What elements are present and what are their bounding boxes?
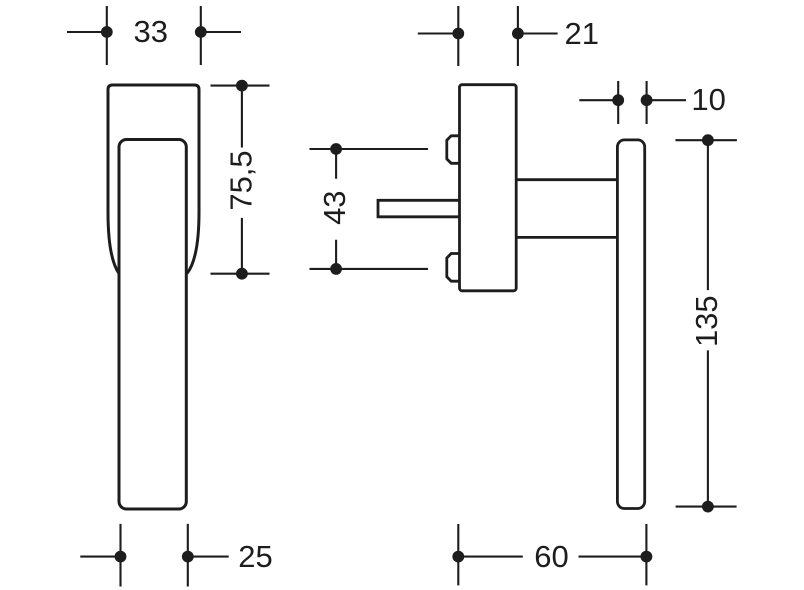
svg-text:33: 33	[134, 14, 168, 49]
side view: neck between plate and grip	[516, 180, 617, 238]
dimension 75,5 (head height, right of front view)	[211, 86, 270, 274]
side view: top fixing lug	[447, 136, 460, 164]
svg-text:21: 21	[564, 16, 598, 51]
dimension 43 (lug spacing, middle left of side view)	[310, 149, 429, 269]
side view: rosette plate	[460, 85, 517, 291]
dimension 33 (grip head width, top left)	[67, 6, 241, 65]
dimension 60 (overall depth, bottom right)	[458, 524, 646, 585]
svg-text:75,5: 75,5	[224, 150, 259, 210]
dimension 21 (plate thickness, top middle)	[418, 6, 558, 66]
handle front view: grip bar	[119, 140, 186, 510]
side view: bottom fixing lug	[447, 254, 460, 282]
handle front view: outer cover profile	[108, 85, 199, 274]
side view: grip bar (side)	[617, 140, 644, 509]
side view: square spindle	[378, 200, 460, 217]
svg-text:25: 25	[238, 539, 272, 574]
dimension 10 (grip thickness, top right)	[579, 81, 686, 124]
dimension 135 (grip length, right)	[675, 140, 737, 506]
svg-text:60: 60	[534, 539, 568, 574]
dimension 25 (grip width, bottom left)	[80, 524, 228, 587]
svg-text:135: 135	[689, 295, 724, 347]
svg-text:10: 10	[691, 82, 725, 117]
svg-text:43: 43	[317, 190, 352, 224]
